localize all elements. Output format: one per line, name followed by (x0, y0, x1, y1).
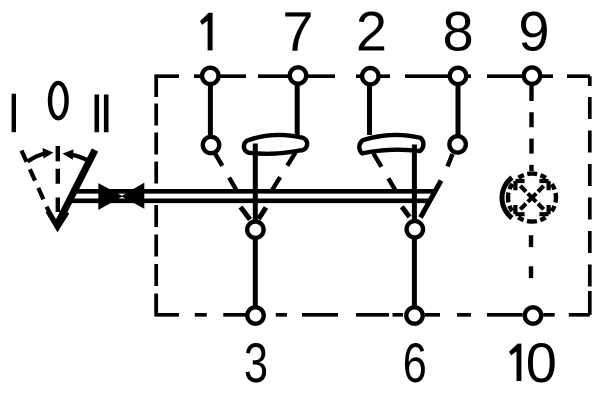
terminal 3 circle (247, 307, 263, 323)
arc arrow left (28, 153, 47, 161)
lamp centre cross (528, 193, 536, 201)
fan centre dashed line (56, 169, 60, 212)
fan left dashed edge (22, 151, 53, 219)
dashed contact position line pole 2 left (374, 154, 397, 193)
bridge contact lozenge B (pole 2) (359, 135, 423, 153)
dashed contact position line pole 1 left (215, 153, 238, 193)
terminal 7 circle (290, 67, 306, 83)
terminal 6 circle (406, 307, 422, 323)
fan centre tick (56, 146, 60, 161)
dashed contact position line pole 1 right (272, 153, 296, 192)
dashed contact tick below terminal 8 (448, 154, 453, 167)
terminal 8 circle (450, 68, 466, 84)
wire terminal 8 stem (456, 86, 461, 135)
fixed contact circle below 8 (449, 136, 465, 152)
bridge contact lozenge A (pole 1) (244, 135, 307, 154)
lamp ray arrows (515, 181, 548, 214)
svg-text:6: 6 (403, 331, 427, 394)
common contact circle pole 1 (247, 222, 263, 238)
position label 0 (50, 83, 67, 118)
lever actuator (58, 150, 96, 224)
lamp reflector arc (502, 178, 512, 219)
svg-text:2: 2 (356, 0, 387, 63)
lamp L1 dashed circle (508, 174, 556, 222)
enclosure border bottom (156, 295, 590, 315)
enclosure border right (588, 97, 592, 288)
svg-text:0: 0 (526, 331, 557, 394)
terminal 10 circle (525, 307, 541, 323)
terminal 2 circle (362, 68, 378, 84)
wire terminal 7 stem (295, 86, 300, 137)
position label I (12, 94, 16, 133)
svg-text:7: 7 (282, 0, 313, 63)
switch enclosure dashed border top (156, 76, 590, 97)
enclosure border left (154, 104, 158, 185)
contact barbs pole 1 (241, 207, 267, 220)
moving contact arm pole 2 (solid) (421, 181, 442, 218)
svg-text:3: 3 (244, 331, 268, 394)
terminal 9 circle (524, 67, 540, 83)
wire terminal 1 stem (208, 86, 213, 136)
common contact circle pole 2 (407, 221, 423, 237)
terminal 1 circle (202, 68, 218, 84)
contact barb pole 2 (402, 207, 410, 217)
wire lamp to terminal 10 (dashed) (529, 235, 533, 278)
svg-text:8: 8 (443, 0, 474, 63)
wire terminal 2 stem (367, 86, 372, 136)
wire terminal 9 to lamp (dashed) (529, 86, 533, 171)
actuator bar (double line) (74, 189, 434, 194)
position label II (97, 95, 106, 133)
coupling bowtie arrow right triangle (121, 183, 144, 209)
coupling bowtie arrow left triangle (98, 183, 123, 210)
lever apex V arrowhead (48, 211, 67, 227)
wire pole 1 centre stem (253, 144, 258, 306)
arc arrow right (71, 155, 88, 161)
wire pole 2 centre stem (412, 145, 417, 306)
fixed contact circle below 1 (203, 137, 219, 153)
terminal number 10 (509, 344, 521, 381)
svg-text:9: 9 (518, 0, 549, 63)
terminal number 1 (200, 13, 213, 51)
